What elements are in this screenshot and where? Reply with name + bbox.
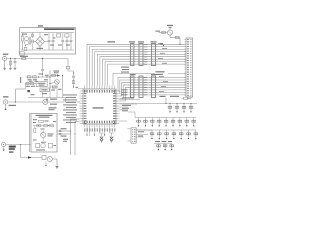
text below U2 [49,107,57,110]
wire left of serial box [29,113,31,152]
wire Q4 base drop [45,162,46,167]
header K2 left wire [128,129,132,141]
small symbol left of bank A [161,43,165,46]
IC5 label [130,74,136,75]
wire row y83.5 [26,83,37,85]
serial wire row [33,125,53,127]
serial text bottom [36,150,45,151]
IC3 label [138,41,144,42]
regulator IC box 1 [57,34,61,37]
switch S1 in power box [24,45,27,50]
U1 left pin numbers [84,90,87,124]
capacitor C4 [66,37,69,50]
wire Q4 out [52,159,57,166]
buffer IC7 (bank B col 3) [150,76,158,98]
text under R5 R6 [26,86,35,87]
row2 feed wire [128,112,135,118]
node b2 [46,76,47,77]
IC7 label [151,74,157,75]
ground under R1 [9,68,11,69]
U1 bottom pin label column [84,128,115,131]
data bus left labels [121,89,128,95]
wire bottom input [21,145,43,158]
arrowhead bottom [28,156,31,159]
wire audio line 2 [8,101,42,103]
text below power box [20,56,28,57]
capacitor C6 [14,59,17,68]
Q5 out drop [179,38,180,45]
node b1 [38,76,39,77]
connector K1 [184,38,192,97]
microcontroller U1 body [83,89,116,124]
gnd drop x62.5 [62,87,64,98]
transformer TR1 [24,37,30,45]
J3 ground drop [3,147,5,152]
serial resistor R13 vertical [34,126,36,133]
wire row y77 [26,76,51,78]
bridge rectifier B1 [31,33,48,51]
power box interior text [22,34,56,39]
bank B wire labels near connector [159,76,168,92]
ground under C6 [14,68,16,69]
U1 bottom pin drops [87,127,110,136]
regulator IC box 2 [65,34,69,37]
RAM IC4 (bank A col 3) [150,44,158,66]
power supply title text [44,28,75,31]
ground Q4 [56,166,59,168]
U1 right pin numbers [113,90,116,124]
node J3 [20,144,21,145]
input jack J3 [2,143,6,147]
U1 bottom pins [85,124,115,127]
input jack J1 [3,56,7,60]
capacitor C2 [52,33,55,50]
capacitor C1 [48,33,51,50]
VCC text [160,96,180,97]
node d1 [70,130,71,131]
module box X2 [40,88,49,92]
label J2 [3,96,9,97]
Q5 base label [156,31,161,32]
crystal X1 symbol [100,133,104,143]
value text under caps [50,45,70,46]
transistor Q4 [47,156,52,161]
drop end dots [86,134,105,135]
vertical label [20,77,21,83]
INT wire [120,110,129,112]
op-amp U2 circle [43,99,48,104]
wire primary top rail [21,32,74,34]
node d2 [74,133,75,134]
serial resistor R12 [50,124,54,126]
wire y89 to osc [16,84,26,90]
ground rail y97.5 [28,97,66,99]
wire vertical x75 [74,122,76,156]
serial resistor R11 [44,124,48,126]
diode D1 [66,66,73,71]
optocoupler U3 [36,143,45,148]
PSEN wire [120,97,141,99]
resistor R4 [33,76,37,78]
wire to MCU pin y119 [71,118,80,120]
wire after U2 [48,101,80,103]
fuse F1 [21,33,23,51]
node c1 [15,101,16,102]
address bus label [108,41,116,42]
wire into MCU y88.5 [76,87,84,89]
row2 rail [135,117,196,119]
bank A wire labels near connector [158,43,167,64]
connector K1 foot [188,97,191,99]
gnd drop x50 [49,88,51,98]
svg-text:POWER SUPPLY: POWER SUPPLY [45,29,61,31]
T0 wire short [120,120,128,122]
serial box title [36,115,53,118]
driver array row 2 [137,118,196,127]
U1 right pins [116,91,120,124]
diode D2 [182,97,190,99]
node a1 [10,58,11,59]
input jack J2 [3,100,7,104]
crystal cap symbol 2 [110,133,114,143]
resistor R6 [31,82,34,84]
ground under J1 [3,68,5,70]
dark blob label [27,90,30,92]
U1 top pin numbers [84,90,115,93]
resistor R7 [52,74,56,76]
Q5 base wire [159,32,168,34]
resistor R15 [162,31,166,33]
label J1 [3,54,9,55]
U1 left pin labels [63,94,77,123]
serial box [31,114,57,153]
ground symbol mid [46,98,48,102]
Q5 collector [168,27,171,30]
wire audio line [7,58,68,60]
wire branch y75.5 [50,75,60,77]
Q5 emitter wire [170,35,180,37]
VCC rail bottom right [120,103,198,105]
wire J2 ground drop [5,104,7,108]
resistor R2 [22,57,26,59]
transistor Q5 [167,30,172,35]
bus mid labels [121,67,129,73]
pull-up array row 1 [168,103,193,112]
power supply enclosure box [20,28,76,55]
serial interior marks [33,119,56,146]
dark input label [9,146,16,153]
driver array row 3 [150,130,197,139]
text right of U2 upper [50,99,57,100]
gnd drop x42.5 [42,92,44,98]
U1 bottom pin numbers [84,121,115,124]
resistor R5 [26,82,29,84]
gnd drop x57 [56,84,58,97]
capacitor C8 chain [72,71,75,88]
serial resistor R9 [39,120,49,122]
serial out wire 1 [57,130,71,132]
IC4 label [151,41,157,42]
label above power box [38,25,43,26]
capacitor C5 [70,33,73,51]
small box below power box [19,52,24,55]
capacitor C7 [41,58,44,77]
transistor Q3 [41,130,46,141]
U1 center label [93,107,104,108]
resistor R3 [27,76,31,78]
resistor R1 vertical [10,59,12,68]
wire up from node c1 [15,89,17,102]
serial out wire 2 [57,133,71,135]
RD wire [120,104,138,106]
resistor R14 [42,156,46,160]
wire rail drop to y102 [65,98,67,103]
latch IC5 (bank B col 1) [129,76,136,98]
rail riser [165,98,166,105]
ALE label [156,71,165,75]
EPROM IC3 (bank A col 2) [137,44,145,66]
serial box part right [48,143,52,148]
resistor R8 [52,86,56,88]
wire audio drop at x68 [67,59,69,67]
bridge label text [37,48,44,49]
wire to MCU pin y121.5 [75,121,80,123]
extra group row 4 [154,144,174,151]
wire vertical x62.5 [62,75,63,87]
header K2 wires [136,130,152,137]
row3 rail [136,129,196,131]
WR wire [120,107,130,109]
wire vertical x70.5 [70,119,72,155]
capacitor C3 [61,33,64,50]
serial out labels [61,128,67,136]
text right of U2 lower [50,104,57,105]
module box X1 [36,81,47,86]
text under R3 R4 [28,79,49,80]
U1 left pins [80,91,84,124]
mid-left extra labels [29,74,62,96]
address bus A0-A8 corner wires [87,44,186,85]
latch IC2 (bank A col 1) [129,44,136,66]
node a2 [14,58,15,59]
text near verticals [63,139,68,142]
transistor Q1 arrow [57,74,59,77]
serial resistor R10 [37,124,41,126]
resistor R16 [175,36,179,38]
wire J3 line [6,144,31,146]
header K2 [131,128,136,143]
IC3 side labels [144,44,147,65]
wire vertical x50 [49,70,50,88]
ALE wire [113,74,186,86]
IC6 side labels [144,77,147,95]
wire row y87 [50,86,58,88]
row3 labels [155,141,172,142]
U1 top pins [85,86,115,90]
wire secondary bottom rail [21,49,74,51]
varistor in power box [32,33,34,51]
decoder IC6 (bank B col 2) [137,76,145,98]
data bus D0-D7 wires [118,78,186,102]
transistor Q2 [50,80,59,85]
text above Q1 [54,71,60,74]
transistor Q5 label [167,25,173,26]
label under line2 [9,105,17,106]
serial text mid [48,134,54,137]
IC2 label [129,41,135,42]
ground dot J2 [5,109,7,111]
wire jack ground drop [4,61,6,68]
